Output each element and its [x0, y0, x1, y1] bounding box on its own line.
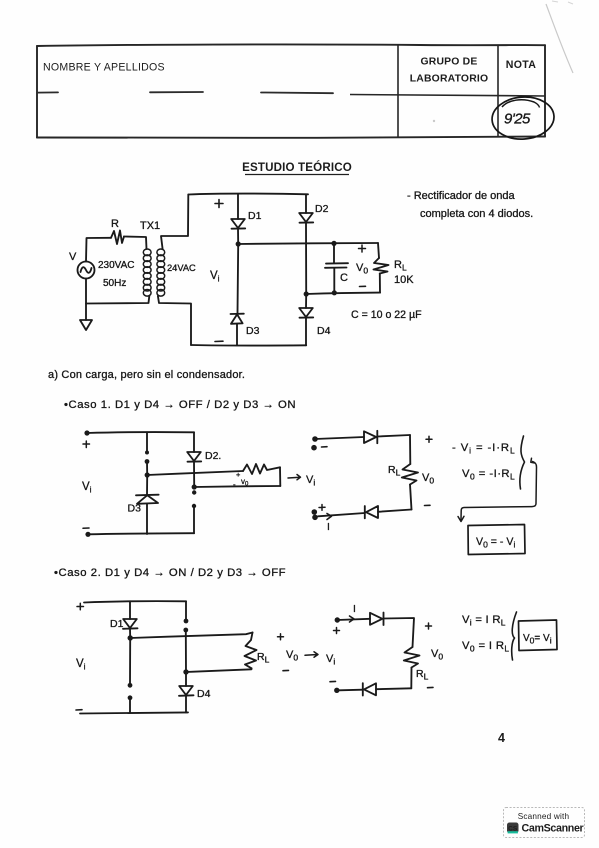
caso2 node + label [77, 603, 84, 609]
wire D2 to node Vminus [305, 223, 307, 294]
caso1R current arrow on wire [327, 514, 332, 520]
svg-text:V0 = - Vi: V0 = - Vi [476, 536, 515, 549]
scan crease artifact top-right [546, 4, 573, 73]
svg-text:R: R [111, 218, 119, 230]
caso2R input terminal bottom [334, 688, 339, 693]
svg-text:Vi = I RL: Vi = I RL [462, 614, 506, 627]
caso1 open terminal D1 top [145, 451, 149, 455]
caso1R label + output [426, 436, 432, 442]
node + label output [359, 245, 366, 252]
svg-text:V0 = I RL: V0 = I RL [462, 640, 509, 653]
caso1R result box [468, 525, 525, 555]
wire D3 to bottom rail [236, 324, 238, 346]
ground [85, 304, 87, 321]
caso2 wire top to D1 [129, 601, 131, 619]
caso2 wire node A down to D3 gap [129, 638, 131, 684]
caso1 wire top rail to D2 [193, 432, 195, 452]
diode D4 [299, 308, 313, 318]
svg-text:ESTUDIO TEÓRICO: ESTUDIO TEÓRICO [242, 161, 352, 174]
wire mid rail plus [238, 243, 378, 244]
caso2R top wire with current arrow [337, 619, 370, 620]
caso1 wire D2 to node B [193, 462, 195, 487]
wire to RL [378, 243, 379, 258]
table row divider faded dashes (left part) [37, 92, 333, 93]
caso1 junction node A [145, 472, 150, 477]
caso1R label + input bottom [319, 505, 325, 511]
svg-text:230VAC: 230VAC [98, 260, 135, 271]
caso1R input terminal bottom pair [312, 509, 318, 515]
caso2 arrow to simplified [305, 652, 318, 657]
svg-text:a) Con carga, pero sin el cond: a) Con carga, pero sin el condensador. [48, 369, 245, 381]
wire cap bottom [333, 268, 335, 293]
caso1R top wire [315, 437, 364, 439]
transformer TX1 primary winding [143, 249, 151, 296]
caso2 output wire upper [130, 633, 252, 639]
junction node Vminus [304, 291, 309, 296]
caso2 open terminal D3 bottom [128, 695, 133, 700]
wire top rail to D1 [237, 194, 239, 219]
node - label output [360, 285, 366, 287]
svg-text:D1: D1 [248, 210, 262, 222]
svg-text:24VAC: 24VAC [167, 263, 196, 273]
caso1 arrow to simplified [288, 475, 301, 480]
caso2 top rail wire [84, 601, 186, 602]
caso1 wire right edge [279, 467, 281, 486]
wire D4 to bottom rail [305, 318, 307, 346]
svg-text:D4: D4 [197, 688, 211, 700]
caso2 wire D4 to bottom rail [185, 696, 187, 713]
caso2 junction node A [128, 635, 133, 640]
svg-text:D1: D1 [110, 618, 124, 630]
svg-text:V: V [69, 251, 77, 263]
caso1 wire D4 gap to bottom rail [193, 506, 195, 533]
svg-text:GRUPO DE: GRUPO DE [420, 57, 477, 68]
AC source V1 [78, 262, 95, 279]
svg-text:D3: D3 [128, 503, 142, 515]
caso1R wire diode to corner [377, 435, 410, 437]
caso1 open terminal D4 bottom [192, 504, 196, 508]
svg-text:50Hz: 50Hz [103, 278, 126, 289]
caso2R label - input [330, 680, 336, 682]
caso2R label + output [426, 623, 432, 629]
caso1R input terminal lower [311, 445, 317, 451]
faint smudge in table body [433, 120, 435, 122]
caso1R resistor RL zigzag [402, 464, 418, 485]
svg-text:10K: 10K [394, 274, 414, 286]
caso1 diode D3 (pointing up) [136, 495, 159, 504]
capacitor C [325, 263, 348, 268]
caso1R input terminal top [312, 436, 318, 442]
caso2 open terminal D2 bottom [183, 628, 188, 633]
caso1 wire D1 gap to node A [146, 462, 148, 476]
caso1R right wire down [409, 435, 411, 464]
caso2 node - label [76, 709, 82, 711]
wire mid rail minus [306, 293, 380, 294]
caso2R label + input [334, 628, 340, 634]
handwritten grade circle [491, 95, 556, 141]
caso2R bottom wire left part [339, 689, 363, 692]
wire D1 to node Vplus [237, 229, 239, 244]
svg-text:9'25: 9'25 [504, 111, 531, 128]
svg-text:V0= Vi: V0= Vi [523, 633, 552, 645]
caso2 junction node B [183, 669, 188, 674]
caso1 output wire lower [194, 486, 280, 487]
svg-text:D4: D4 [317, 325, 331, 337]
caso1R diode bottom (conducting left) [365, 506, 378, 518]
caso1 junction node B [192, 484, 197, 489]
diode D3 (pointing up) [231, 314, 244, 324]
caso1 bottom rail wire [88, 533, 194, 534]
wire cap top [333, 243, 335, 263]
caso2 diode D4 [179, 686, 194, 696]
table column line (NOTA left) [497, 45, 499, 137]
caso2 diode D1 [123, 619, 138, 629]
svg-text:V0 = -I·RL: V0 = -I·RL [462, 468, 515, 481]
node + label top [215, 200, 223, 208]
wire bridge top rail [188, 193, 308, 196]
svg-text:I: I [353, 603, 356, 615]
junction node cap bottom [332, 290, 337, 295]
svg-text:-: - [233, 480, 236, 489]
svg-text:D3: D3 [246, 325, 260, 337]
resistor R [111, 231, 124, 245]
svg-text:C = 10 o 22 µF: C = 10 o 22 µF [351, 309, 422, 321]
svg-text:LABORATORIO: LABORATORIO [410, 74, 489, 85]
caso2 wire node B to D4 [185, 672, 187, 686]
caso2R wire RL to bottom corner [410, 668, 412, 689]
caso2R input terminal top [335, 617, 340, 622]
caso1 source terminal - node [85, 532, 90, 537]
resistor RL [374, 258, 389, 274]
caso2 wire D2 gap down through cross to node B [185, 630, 187, 672]
node - label bottom [215, 340, 223, 342]
junction node cap top [331, 241, 336, 246]
svg-text:completa con 4 diodos.: completa con 4 diodos. [420, 208, 533, 220]
svg-text:- Rectificador de onda: - Rectificador de onda [407, 190, 515, 202]
caso1 wire top to D1 gap [146, 432, 148, 451]
caso2 wire D3 gap to bottom rail [129, 698, 131, 713]
svg-text:D2.: D2. [205, 450, 221, 462]
svg-text:NOMBRE Y APELLIDOS: NOMBRE Y APELLIDOS [43, 62, 165, 74]
caso2R bottom wire right part [376, 687, 411, 690]
wire secondary bottom to bridge bottom rail [158, 296, 191, 345]
svg-text:C: C [340, 272, 348, 284]
wire RL to bottom [379, 274, 381, 293]
wire node Vminus to D4 [305, 294, 307, 308]
wire primary bottom to source bottom [86, 279, 149, 304]
caso1R bottom wire left part [318, 513, 365, 516]
caso1R label - output [425, 504, 431, 506]
caso1R arrow path to result box [461, 462, 537, 520]
wire secondary top to bridge top rail [161, 195, 188, 250]
svg-text:•Caso 2. D1 y D4 → ON / D2 y: •Caso 2. D1 y D4 → ON / D2 y D3 → OFF [54, 567, 286, 579]
caso1R brace [520, 436, 525, 489]
caso2R brace [512, 612, 517, 660]
svg-text:CamScanner: CamScanner [522, 823, 584, 835]
caso2R resistor RL zigzag [404, 647, 420, 668]
svg-text:NOTA: NOTA [506, 59, 536, 71]
svg-text:•Caso 1. D1 y D4 → OFF / D2 y: •Caso 1. D1 y D4 → OFF / D2 y D3 → ON [64, 399, 296, 411]
caso2R diode top (conducting right) [370, 613, 384, 626]
CamScanner badge [504, 808, 585, 838]
svg-text:I: I [327, 521, 330, 533]
caso2 wire D1 to node A [129, 629, 131, 638]
caso2 bottom rail wire [80, 712, 188, 713]
caso1 source terminal + node [84, 430, 89, 435]
junction node Vplus [236, 241, 241, 246]
caso1R bottom wire right part [378, 510, 412, 512]
caso2R diode bottom (conducting left) [363, 683, 376, 695]
caso1 output wire upper [147, 471, 243, 475]
caso1 top rail wire [87, 431, 194, 434]
caso1 wire D3 to bottom rail [146, 504, 148, 534]
svg-text:4: 4 [498, 731, 505, 745]
wire node Vplus to D3 [237, 244, 240, 314]
svg-text:TX1: TX1 [140, 220, 160, 232]
svg-text:- Vi = -I·RL: - Vi = -I·RL [452, 442, 516, 455]
table row divider (right solid part) [350, 95, 545, 97]
caso1 diode D2 [187, 452, 201, 462]
caso2 load resistor RL zigzag [245, 633, 257, 669]
wire top rail to D2 [305, 194, 307, 213]
caso2 open terminal D3 top [128, 683, 133, 688]
caso1 open terminal D4 top [192, 490, 196, 494]
transformer TX1 secondary winding [157, 249, 165, 296]
caso2 open terminal D2 top [184, 619, 189, 624]
svg-text:D2: D2 [315, 203, 329, 215]
wire bridge bottom rail [191, 344, 306, 347]
caso1R label - input [322, 446, 328, 448]
caso2 output wire lower [186, 668, 252, 672]
caso2 label + output [278, 634, 284, 640]
svg-text:Scanned with: Scanned with [518, 812, 570, 821]
caso2 wire top rail to D2 gap [185, 601, 187, 620]
caso1 open terminal D1 bottom [145, 459, 150, 464]
diode D1 [231, 219, 245, 229]
caso1 wire node A to D3 [146, 475, 148, 495]
wire source top to resistor [86, 238, 111, 262]
table column line (GRUPO DE LABORATORIO left) [397, 45, 399, 138]
caso1R wire RL to bottom corner [410, 485, 412, 510]
svg-text:CS: CS [508, 826, 518, 833]
caso1R diode top (conducting right) [364, 431, 377, 443]
caso1 load resistor scribble [243, 464, 280, 474]
caso2R label - output [428, 686, 434, 688]
caso2 label - output [283, 669, 289, 671]
header table outer border [37, 44, 545, 138]
wire resistor to transformer primary [124, 237, 147, 250]
diode D2 [299, 213, 313, 223]
caso2R result box [519, 620, 558, 651]
caso2R wire diode to corner [384, 618, 415, 647]
